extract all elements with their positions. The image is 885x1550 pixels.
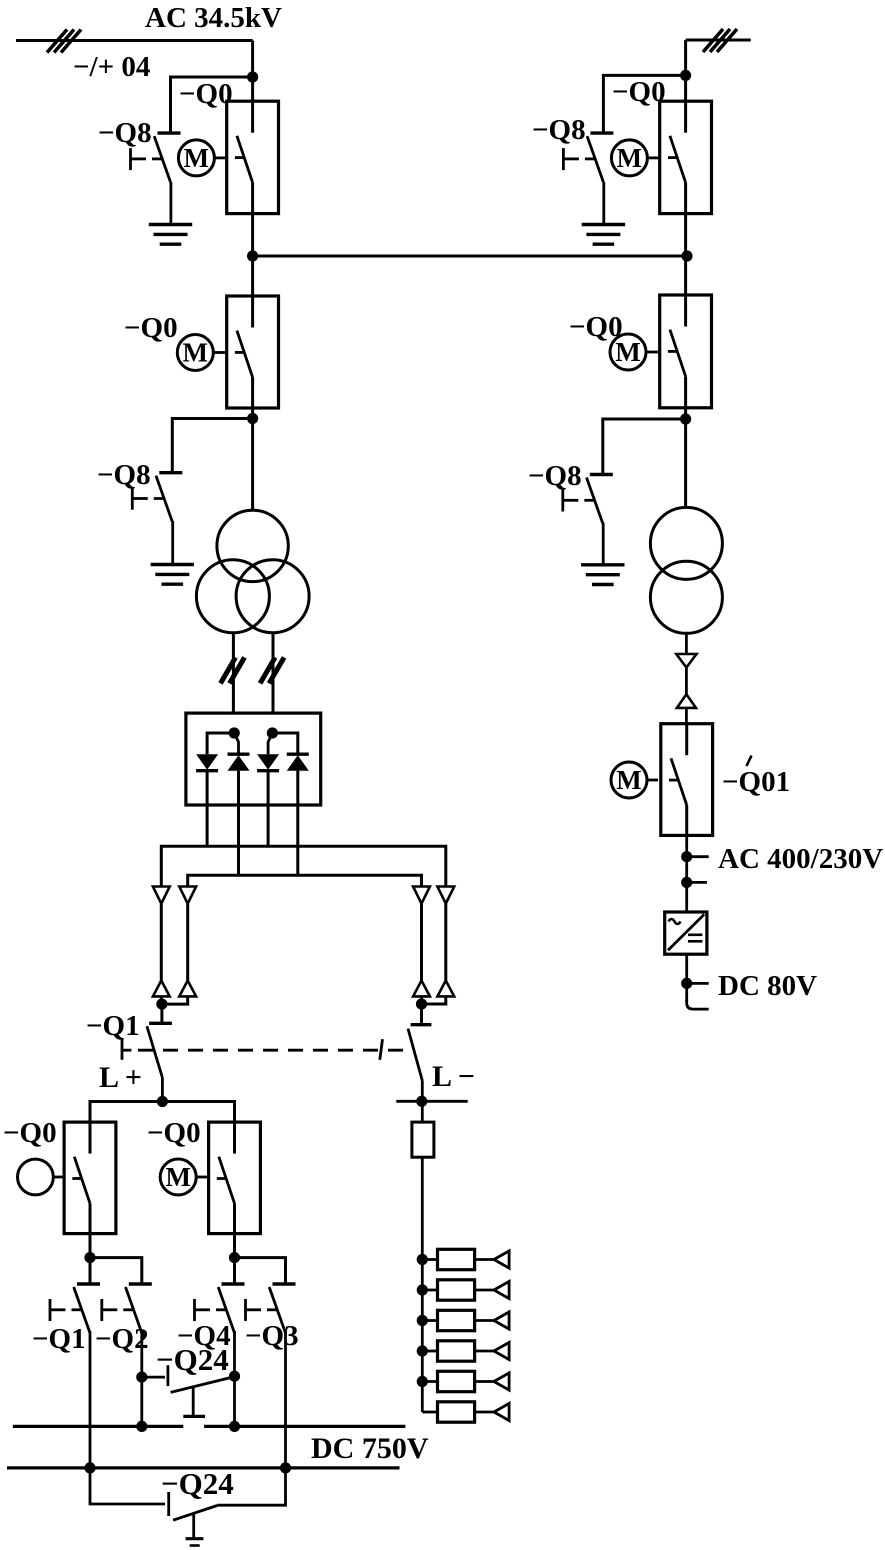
- svg-text:AC 34.5kV: AC 34.5kV: [145, 2, 282, 34]
- svg-text:L +: L +: [99, 1061, 142, 1094]
- feeder 1 wire to terminal: [475, 1258, 494, 1261]
- feeder 2 terminal arrow: [494, 1281, 509, 1298]
- feeder 4 device box: [438, 1341, 475, 1361]
- wire L- crossbar: [396, 1100, 467, 1103]
- circuit breaker Q0 upper-left: [227, 101, 279, 213]
- phase marks on secondary a: [221, 657, 245, 683]
- node right below-breaker tap: [680, 413, 691, 424]
- wire Q2 to DC bus: [140, 1331, 143, 1426]
- motor drive M of left feeder Q0: [177, 335, 227, 371]
- circuit breaker Q0 lower-left 1: [64, 1122, 116, 1234]
- svg-text:−Q0: −Q0: [179, 78, 233, 110]
- disconnector Q1 lower: [50, 1284, 100, 1333]
- wire input a to diode V1: [207, 733, 234, 754]
- feeder 3 tap: [417, 1315, 428, 1326]
- svg-text:DC 750V: DC 750V: [311, 1432, 429, 1465]
- drawout contact aux upper: [676, 654, 696, 668]
- wire drawout link 4: [444, 904, 447, 981]
- svg-text:M: M: [184, 143, 209, 173]
- node below breaker 1: [84, 1252, 95, 1263]
- diode V4: [287, 754, 309, 771]
- earthing switch Q24 lower: [90, 1468, 286, 1546]
- motor drive M of upper-left Q0: [178, 140, 226, 176]
- ground upper-left: [149, 225, 192, 245]
- svg-text:−Q8: −Q8: [532, 114, 586, 146]
- wire L- to resistor: [421, 1101, 424, 1122]
- wire earthing branch Q8 right-lower: [603, 419, 686, 475]
- drawout contact lower 1: [153, 981, 170, 997]
- wire diode V2 output: [237, 771, 240, 876]
- transformer T2 secondary winding: [650, 561, 722, 633]
- feeder 6 device box: [438, 1402, 475, 1422]
- svg-text:DC 80V: DC 80V: [718, 970, 817, 1002]
- feeder 6 wire to terminal: [475, 1411, 494, 1414]
- feeder 6 terminal arrow: [494, 1403, 509, 1420]
- svg-text:AC 400/230V: AC 400/230V: [718, 843, 883, 875]
- svg-text:−Q0: −Q0: [612, 76, 666, 108]
- wire below right feeder breaker: [684, 408, 687, 508]
- earthing switch Q8 upper-left: [131, 133, 181, 182]
- wire Q4 to DC bus: [233, 1331, 236, 1426]
- disconnector Q1 negative pole: [408, 1025, 431, 1081]
- wire below lower-left breaker 2: [233, 1234, 236, 1258]
- ground right-lower: [581, 565, 624, 585]
- feeder 4 terminal arrow: [494, 1342, 509, 1359]
- wire Q1 lower to negative bus: [89, 1331, 92, 1468]
- wire Q8 blade to ground left-lower: [171, 521, 174, 565]
- svg-text:L −: L −: [432, 1060, 475, 1093]
- feeder 6 tap: [422, 1411, 437, 1414]
- node second tap: [681, 877, 692, 888]
- wire diode V3 output: [267, 771, 270, 847]
- feeder 4 tap: [417, 1345, 428, 1356]
- wire input a to diode V2: [234, 733, 238, 754]
- feeder 3 wire to terminal: [475, 1319, 494, 1322]
- svg-text:−Q3: −Q3: [245, 1320, 299, 1352]
- line continuation hatch right: [703, 29, 737, 52]
- feeder 5 wire to terminal: [475, 1380, 494, 1383]
- diode V1: [196, 754, 218, 771]
- node left bus junction: [247, 250, 258, 261]
- transformer T1 primary winding: [217, 510, 288, 581]
- converter AC/DC box: [665, 912, 707, 954]
- feeder 2 device box: [438, 1280, 475, 1300]
- svg-text:−Q0: −Q0: [124, 312, 178, 344]
- feeder 1 terminal arrow: [494, 1251, 509, 1268]
- wire diode V1 output: [206, 771, 209, 847]
- node L- junction: [416, 1096, 427, 1107]
- svg-text:−Q01: −Q01: [722, 766, 790, 798]
- wire node to Q1 left: [160, 1004, 163, 1023]
- svg-text:−Q8: −Q8: [528, 460, 582, 492]
- feeder 5 device box: [438, 1371, 475, 1391]
- circuit breaker Q0 left feeder: [227, 296, 279, 408]
- wire to disconnector Q4: [233, 1258, 236, 1284]
- wire converter to DC 80V: [685, 954, 688, 1002]
- wire drawout link 2: [186, 904, 189, 981]
- node below breaker 2: [229, 1252, 240, 1263]
- wire L+ bus: [90, 1102, 235, 1123]
- node L+ bus tap: [157, 1096, 168, 1107]
- feeder 5 tap: [417, 1376, 428, 1387]
- svg-text:M: M: [165, 1162, 190, 1192]
- interlock end tick: [380, 1039, 383, 1060]
- wire DC positive bus right part: [204, 1425, 405, 1428]
- diode V2: [228, 754, 250, 771]
- feeder 5 terminal arrow: [494, 1373, 509, 1390]
- wire earthing-switch branch Q8 upper-left: [171, 77, 253, 133]
- svg-text:M: M: [616, 765, 641, 795]
- feeder 4 wire to terminal: [475, 1350, 494, 1353]
- wire branch to disconnector Q3: [235, 1258, 286, 1284]
- wire tie bus: [253, 255, 687, 258]
- wire T1 secondary a to rectifier: [232, 632, 235, 713]
- ground left-lower: [151, 565, 194, 585]
- svg-text:M: M: [615, 337, 640, 367]
- motor drive M lower-left Q0: [160, 1159, 208, 1195]
- wire below left drawout pair: [160, 996, 163, 1004]
- wire Q8 blade to ground: [169, 182, 172, 225]
- wire between upper-right breaker and bus: [684, 214, 687, 295]
- earthing switch Q8 right-lower: [563, 475, 613, 524]
- disconnector Q2: [102, 1284, 152, 1333]
- node left below-breaker tap: [247, 413, 258, 424]
- wire earthing branch Q8 upper-right: [603, 75, 685, 133]
- node rectifier input a: [229, 727, 240, 738]
- wire left drop to breaker Q0: [251, 41, 254, 102]
- wire DC 80V end hook: [687, 1000, 709, 1009]
- drawout contact upper 1: [153, 887, 170, 904]
- rectifier cubicle box: [186, 713, 321, 805]
- node negative bus Q3: [280, 1462, 291, 1473]
- svg-text:−/+ 04: −/+ 04: [73, 51, 150, 83]
- wire DC pole 2 routing: [188, 875, 422, 886]
- resistor line diode/fuse box: [412, 1122, 434, 1157]
- drawout contact upper 4: [437, 887, 454, 904]
- feeder 2 wire to terminal: [475, 1289, 494, 1292]
- node AC 400/230V tap: [681, 851, 692, 862]
- wire T1 secondary b to rectifier: [272, 632, 275, 713]
- feeder 2 tap: [417, 1284, 428, 1295]
- wire Q1 right to L- node: [421, 1081, 424, 1102]
- drawout contact aux lower: [677, 694, 696, 708]
- drawout contact upper 3: [413, 887, 430, 904]
- wire DC negative bus: [7, 1466, 400, 1469]
- earthing switch Q8 upper-right: [563, 133, 613, 182]
- disconnector Q4: [195, 1284, 245, 1333]
- svg-text:−Q24: −Q24: [161, 1466, 234, 1501]
- transformer T1 secondary winding a: [196, 560, 269, 633]
- wire incoming AC line left: [16, 39, 253, 42]
- svg-text:−Q0: −Q0: [3, 1117, 57, 1149]
- svg-text:−Q0: −Q0: [147, 1117, 201, 1149]
- earthing switch Q24 upper: [142, 1365, 235, 1416]
- node Q24 upper left: [136, 1372, 147, 1383]
- drawout contact upper 2: [179, 887, 196, 904]
- wire below left feeder breaker: [251, 408, 254, 510]
- node right incoming tap: [680, 70, 691, 81]
- node L- pole junction: [416, 998, 427, 1009]
- svg-text:−Q8: −Q8: [98, 117, 152, 149]
- drawout contact lower 2: [179, 981, 196, 997]
- node right bus junction: [681, 250, 692, 261]
- wire input b to diode V3: [268, 733, 272, 754]
- wire right drop to breaker Q0: [684, 40, 687, 101]
- circuit breaker Q0 lower-left 2: [209, 1122, 261, 1234]
- phase marks on secondary b: [260, 657, 284, 683]
- feeder 1 tap: [417, 1254, 428, 1265]
- wire incoming AC line right: [686, 39, 751, 42]
- disconnector Q1 positive pole: [122, 1023, 172, 1077]
- wire resistor to feeders: [421, 1157, 424, 1412]
- feeder 1 device box: [438, 1249, 475, 1269]
- node L+ pole junction: [156, 999, 167, 1010]
- svg-text:M: M: [617, 143, 642, 173]
- wire earthing branch Q8 left-lower: [172, 419, 252, 473]
- line continuation hatch left: [47, 30, 81, 53]
- node negative bus Q1: [84, 1462, 95, 1473]
- wire to disconnector Q1 lower: [89, 1258, 92, 1284]
- node Q24 upper right: [229, 1371, 240, 1382]
- disconnector Q3: [246, 1284, 296, 1333]
- drawout contact lower 3: [413, 981, 430, 997]
- wire below right drawout pair: [420, 996, 423, 1024]
- accent mark over Q01: [747, 756, 752, 767]
- svg-text:M: M: [183, 338, 208, 368]
- wire between upper-left breaker and bus: [251, 214, 254, 296]
- node left incoming tap: [247, 71, 258, 82]
- wire input b to diode V4: [272, 733, 297, 754]
- wire below lower-left breaker 1: [89, 1234, 92, 1258]
- svg-text:−Q1: −Q1: [86, 1010, 140, 1042]
- wire Q8 blade to ground upper-right: [602, 182, 605, 225]
- motor drive M right feeder Q0: [610, 334, 660, 370]
- wire between aux contacts: [685, 668, 688, 695]
- motor drive M of Q01: [611, 762, 658, 798]
- wire Q8 blade to ground right-lower: [602, 523, 605, 565]
- diode V3: [257, 754, 279, 771]
- ground upper-right: [582, 225, 625, 245]
- wire branch to disconnector Q2: [90, 1258, 142, 1284]
- node bus Q4: [229, 1421, 240, 1432]
- transformer T2 primary winding: [650, 507, 722, 579]
- svg-text:−Q1: −Q1: [32, 1323, 86, 1355]
- wire DC pole 1 routing: [161, 846, 446, 886]
- wire drawout link 3: [420, 904, 423, 981]
- wire Q3 to negative bus: [284, 1331, 287, 1468]
- node bus Q2: [136, 1421, 147, 1432]
- motor drive M upper-right Q0: [611, 140, 659, 176]
- wire Q01 to converter: [685, 835, 688, 911]
- node rectifier input b: [267, 727, 278, 738]
- node DC 80V tap: [681, 978, 692, 989]
- wire Q1 left to L+ bus: [161, 1078, 164, 1102]
- circuit breaker Q0 upper-right: [660, 101, 712, 213]
- wire drawout link 1: [160, 904, 163, 981]
- wire diode V4 output: [296, 771, 299, 876]
- wire DC positive bus left part: [13, 1425, 183, 1428]
- feeder 3 terminal arrow: [494, 1312, 509, 1329]
- drawout contact lower 4: [437, 981, 454, 997]
- earthing switch Q8 left-lower: [132, 473, 182, 522]
- indicator circle of lower-left Q0: [18, 1159, 65, 1195]
- transformer T1 secondary winding b: [236, 560, 309, 633]
- mechanical interlock dashed link: [138, 1049, 408, 1052]
- circuit breaker Q01: [661, 724, 713, 836]
- circuit breaker Q0 right feeder: [660, 295, 712, 408]
- wire T2 secondary down: [685, 633, 688, 654]
- svg-text:−Q8: −Q8: [97, 459, 151, 491]
- feeder 3 device box: [438, 1310, 475, 1330]
- wire aux contact to Q01: [685, 708, 688, 724]
